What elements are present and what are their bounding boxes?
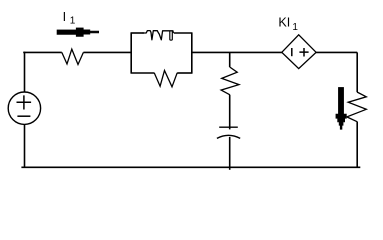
voltage source V1 circle <box>8 92 40 124</box>
capacitor C1 (polarized, middle branch) <box>217 127 240 138</box>
wire from dependent source to right corner <box>316 51 357 53</box>
wire right vertical top segment <box>356 52 358 92</box>
resistor R2 (bottom branch of parallel box) <box>154 71 177 87</box>
wire right vertical bottom segment <box>356 122 358 168</box>
svg-text:1: 1 <box>292 22 298 33</box>
wire bottom horizontal <box>21 166 360 168</box>
node junction of middle branch <box>229 52 231 67</box>
parallel box left vertical wire <box>130 33 132 73</box>
wire box top branch right lead <box>174 32 193 34</box>
wire left vertical top segment <box>24 52 26 93</box>
svg-text:I: I <box>63 10 67 24</box>
svg-text:KI: KI <box>278 16 290 30</box>
dependent source plus sign <box>299 48 308 57</box>
inductor L1 (coil on top branch) <box>143 31 174 41</box>
svg-text:1: 1 <box>70 16 76 27</box>
label KI1 <box>278 16 298 34</box>
wire box bottom branch right lead <box>177 72 192 74</box>
wire from R1 to parallel box <box>83 51 131 53</box>
label I1 <box>63 10 76 27</box>
resistor R1 (top series resistor) <box>62 49 84 64</box>
wire top-left horizontal segment <box>23 51 62 53</box>
current arrow (thick down arrow, right branch) <box>336 87 347 129</box>
wire from capacitor to bottom <box>229 137 231 170</box>
current arrow I1 (thick right arrow) <box>57 28 99 37</box>
wire box bottom branch left lead <box>131 72 155 74</box>
dependent source minus bar <box>291 48 293 56</box>
resistor R3 (middle branch vertical) <box>221 67 239 95</box>
voltage source plus sign <box>17 95 32 109</box>
voltage source minus sign <box>17 115 30 117</box>
wire from box to dependent source <box>192 51 282 53</box>
wire left vertical bottom segment <box>24 124 26 167</box>
resistor R4 (right branch vertical) <box>347 92 367 122</box>
wire box top branch left lead <box>131 32 144 34</box>
dependent source E1 diamond outline <box>282 35 316 69</box>
wire from R3 to capacitor <box>229 95 231 130</box>
parallel box right vertical wire <box>191 33 193 73</box>
